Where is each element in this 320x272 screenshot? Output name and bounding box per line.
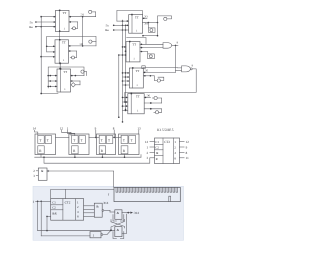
svg-text:Э14: Э14	[134, 211, 140, 215]
wire DD4 out label	[143, 17, 147, 19]
connector X9 circle loop	[143, 75, 154, 77]
svg-text:TT: TT	[63, 11, 67, 15]
wire DD9-DD10 link	[89, 136, 99, 138]
counter block DD8	[35, 134, 56, 155]
node DD1 pin dots	[53, 16, 55, 18]
svg-text:TT: TT	[136, 95, 140, 99]
wire pin12 stub	[62, 130, 72, 136]
wire D loop top	[127, 38, 146, 45]
wire DD16 input	[41, 235, 90, 237]
wire F-top to G2	[143, 67, 181, 69]
wire R drops	[40, 154, 42, 157]
svg-text:14: 14	[145, 140, 149, 144]
wire DD7 pin rows	[123, 96, 128, 98]
wire G1 down	[175, 45, 177, 72]
wire IE5 left stubs	[150, 141, 155, 143]
node DD5 top-left	[129, 41, 131, 43]
chip DD4 (top-right TT)	[129, 15, 143, 34]
node DD3 top	[59, 68, 61, 70]
wire DD1 input pin1	[41, 16, 55, 18]
wire DD3 pin row3	[48, 85, 57, 87]
label E14 out	[130, 212, 133, 214]
bus right3	[118, 55, 120, 117]
gate DD15 (&)	[115, 210, 122, 220]
wire R input	[47, 215, 51, 217]
wire f down1	[37, 201, 39, 230]
wire cross a	[111, 219, 125, 230]
wire DD3 loop rect	[48, 67, 84, 88]
chip DD13 (CT2)	[51, 199, 84, 221]
gate DD16 (1)	[90, 232, 101, 238]
chip DD3 (left-middle TT)	[57, 69, 71, 92]
chip K155IE5	[155, 138, 180, 164]
svg-text:14: 14	[33, 126, 37, 130]
wire DD10-DD11 link	[113, 136, 121, 138]
connector X7 box lower	[147, 23, 149, 28]
wire chip top riser	[65, 189, 67, 198]
connector X2 loop lower	[69, 21, 78, 23]
chip DD7 (right TT fourth)	[128, 94, 144, 114]
wire DD5 out row1 to gate	[140, 43, 163, 45]
wire DD4 out row2	[142, 22, 157, 24]
node F top-right square	[142, 66, 145, 69]
wire DD1-DD2 link	[59, 32, 61, 40]
wing DD17 left	[113, 232, 117, 239]
node DD2 top-left	[59, 39, 61, 41]
wire DD1 input pin3	[36, 26, 56, 28]
bus right2	[125, 25, 127, 109]
svg-text:Э1: Э1	[81, 13, 85, 17]
wire DD7 out row1	[144, 96, 150, 98]
svg-text:TT: TT	[132, 42, 136, 46]
svg-text:TT: TT	[135, 15, 139, 19]
wire DD12 output to scale	[47, 170, 49, 172]
svg-text:CT2: CT2	[65, 200, 71, 204]
node bus-pin3	[40, 26, 42, 28]
wire feedback down to DD2	[82, 17, 84, 46]
connector X10 circle loop	[154, 96, 157, 99]
wire panel top	[51, 189, 114, 198]
chip DD1 (top-left TT)	[56, 10, 70, 31]
svg-text:C2: C2	[155, 146, 159, 150]
connector X5 circle	[81, 70, 84, 73]
svg-text:Э4: Э4	[144, 21, 148, 25]
connector X1 circle	[89, 10, 92, 13]
svg-text:Гн: Гн	[106, 25, 110, 28]
node DD7 top-left	[131, 93, 133, 95]
svg-text:CT2: CT2	[164, 140, 170, 144]
wire DD2 pin row3 from bus	[41, 56, 55, 58]
node chipDD1 top-left	[59, 10, 61, 12]
connector X8 box lower	[140, 52, 148, 54]
node bus-pin1	[40, 16, 42, 18]
wing DD15 left	[113, 215, 117, 222]
wire DD4 pin row1	[117, 20, 129, 22]
node in3	[35, 26, 37, 28]
wire bus bottom link	[41, 93, 58, 95]
counter block DD11	[119, 134, 140, 155]
wire DD15 out	[122, 212, 128, 214]
svg-text:Э14: Э14	[103, 201, 109, 205]
svg-text:TT: TT	[62, 41, 66, 45]
node DD1 out b	[82, 16, 84, 18]
svg-text:C1: C1	[52, 201, 56, 205]
wire DD16 out	[101, 234, 103, 236]
wire f down2	[40, 201, 42, 236]
scale E14 (comb)	[114, 187, 180, 201]
wire pin14 stub	[35, 130, 38, 136]
svg-text:11: 11	[186, 156, 189, 160]
svg-text:Э2: Э2	[80, 42, 84, 46]
bus right1	[122, 20, 124, 122]
wire pin3 stub	[36, 175, 38, 177]
wire DD4 pin row2	[114, 24, 129, 26]
wire pin9 stub	[95, 130, 97, 137]
wire reset bus	[35, 156, 141, 158]
wire G2 output loop	[125, 69, 196, 102]
wire DD2 pin row1	[47, 45, 55, 47]
wire DD14 out	[102, 210, 104, 212]
wire DD2 output	[69, 45, 97, 47]
counter block DD9	[69, 134, 89, 155]
wire DD3 pin row1	[48, 75, 57, 77]
wire DD2 pin row2	[47, 51, 55, 53]
diamond VD1 loop	[71, 80, 81, 82]
wire DD3 output	[71, 75, 85, 77]
connector X6 with loop	[158, 16, 172, 23]
wire DD17 out loop	[122, 214, 127, 233]
wire IE5 right stubs	[180, 141, 185, 143]
wing DD17 right	[120, 232, 124, 239]
wire G1-G2 link	[176, 69, 182, 71]
node DD1 bottom	[59, 30, 61, 32]
svg-text:Э3: Э3	[144, 14, 148, 18]
svg-text:К155ИЕ5: К155ИЕ5	[157, 128, 174, 132]
svg-text:TT: TT	[63, 70, 67, 74]
chip DD5 (right TT second)	[126, 42, 140, 62]
svg-text:C2: C2	[52, 206, 56, 210]
wire pin8 stub	[113, 130, 115, 137]
node bus ends	[122, 121, 124, 123]
svg-text:Э6: Э6	[147, 94, 151, 98]
wire lower long	[38, 229, 115, 231]
gate DD12 (2-3 AND)	[38, 168, 47, 180]
svg-text:13: 13	[137, 126, 141, 130]
node DD3 top-left	[60, 68, 62, 70]
svg-text:C1: C1	[155, 140, 159, 144]
wire DD4 bottom link	[157, 23, 159, 36]
wire cross b	[111, 222, 125, 228]
wire G1 output	[172, 44, 178, 46]
wire reset link lower	[44, 157, 150, 163]
wire DD5 pin row2	[125, 50, 128, 52]
gate DD14 (&)	[94, 203, 102, 217]
wire DD13 outputs	[84, 205, 95, 207]
wire DD4 loop rect	[117, 10, 142, 21]
svg-text:Э5: Э5	[145, 69, 149, 73]
node DD4 top-left	[131, 14, 133, 16]
wire pin1 stub	[67, 130, 74, 136]
node DD1 out a	[70, 16, 72, 18]
counter block DD10	[97, 134, 116, 155]
wire DD5 pin row1	[123, 46, 127, 48]
svg-text:Гн: Гн	[30, 21, 34, 24]
svg-text:Вм: Вм	[105, 29, 109, 32]
wire DD5 pin row3	[119, 54, 126, 56]
wire DD1 input pin2	[36, 21, 56, 23]
svg-text:TT: TT	[136, 69, 140, 73]
svg-text:12: 12	[60, 126, 64, 130]
wire left bus vertical	[40, 17, 42, 94]
wire DD3 pin row2	[48, 80, 57, 82]
chip DD6 (right TT third)	[129, 68, 143, 88]
connector X4 loop lower	[69, 50, 77, 52]
connector X11 circle loop	[144, 108, 162, 110]
wire DD6 out row1 to G2	[143, 71, 175, 73]
wire DD1 output	[69, 16, 96, 18]
wire f input	[36, 200, 51, 202]
gate G1	[163, 43, 172, 49]
node DD6 top-left	[132, 67, 134, 69]
node in2	[35, 21, 37, 23]
wire DD5 out row2 to gate	[140, 47, 163, 49]
wire DD2-DD3 link	[59, 63, 61, 69]
blue panel	[33, 186, 184, 240]
svg-text:Вм: Вм	[29, 26, 33, 29]
chip DD2 (second TT)	[55, 40, 69, 63]
wing DD15 right	[120, 215, 124, 222]
wire DD8-DD9 link	[56, 136, 69, 138]
gate DD17 (&)	[115, 227, 122, 237]
wire DD2 loop rect	[47, 36, 96, 52]
node DD2 bottom	[59, 62, 61, 64]
wire DD4 pin row3	[114, 29, 129, 31]
wire pin2 stub	[36, 170, 38, 172]
wire DD6 pin rows	[123, 72, 130, 74]
gate G2	[182, 66, 191, 72]
svg-text:12: 12	[186, 140, 190, 144]
wire pin13 stub	[138, 130, 140, 134]
connector X3 circle	[89, 40, 92, 43]
